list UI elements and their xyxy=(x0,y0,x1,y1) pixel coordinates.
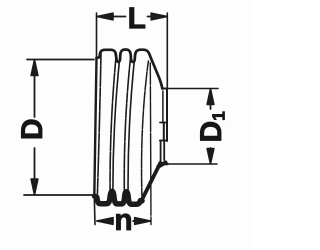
L left arrowhead xyxy=(97,13,113,20)
small end lower face right xyxy=(163,142,165,161)
bellows bottom outline (thick) with 3 corrugation bottoms xyxy=(95,191,142,204)
D1 dimension line xyxy=(210,89,212,109)
n right extension line xyxy=(149,63,152,225)
L right arrowhead xyxy=(151,13,167,20)
label n xyxy=(116,214,130,230)
corrugation wall crest2 left xyxy=(113,54,120,195)
small end bottom edge xyxy=(160,163,168,165)
label D (rotated) xyxy=(21,120,42,138)
label D1 main glyph (rotated) xyxy=(200,122,221,140)
small end tick 1 xyxy=(160,122,167,124)
D dimension line xyxy=(34,60,36,117)
label D1 subscript 1 (rotated) xyxy=(212,112,224,120)
L dimension line xyxy=(97,16,126,18)
small end lower face left xyxy=(160,141,162,162)
small end top edge xyxy=(162,88,168,90)
D bottom arrowhead xyxy=(31,179,38,195)
corrugation wall crest3 right xyxy=(142,61,149,198)
left face / extension line (vertical through part left side) xyxy=(94,13,96,225)
small end inner edge upper xyxy=(162,91,164,123)
small end bottom junction xyxy=(159,163,166,167)
corrugation wall crest2 right xyxy=(124,54,131,196)
small end mid face xyxy=(163,123,165,141)
n left arrowhead xyxy=(97,218,113,225)
n right arrowhead xyxy=(135,218,151,225)
label L xyxy=(130,8,145,29)
D1 bottom extension line xyxy=(168,163,218,165)
D1 top arrowhead xyxy=(207,89,214,105)
D1 bottom arrowhead xyxy=(207,149,214,164)
small end tick 2 xyxy=(160,140,166,142)
D1 top extension line xyxy=(168,88,219,90)
corrugation wall crest3 left xyxy=(128,54,135,196)
D top extension line xyxy=(27,59,94,61)
left face of bellows xyxy=(94,58,96,197)
D bottom extension line xyxy=(24,194,96,196)
corrugation wall crest1 right xyxy=(110,54,116,195)
bellows top outline with 3 corrugation crests and cone edge xyxy=(97,50,163,89)
corrugation wall crest1 left xyxy=(97,53,101,194)
n dimension line xyxy=(97,220,113,222)
small end outer face upper xyxy=(166,89,168,142)
cone bottom edge xyxy=(141,163,161,202)
D top arrowhead xyxy=(31,60,38,76)
L right extension line xyxy=(166,13,168,89)
